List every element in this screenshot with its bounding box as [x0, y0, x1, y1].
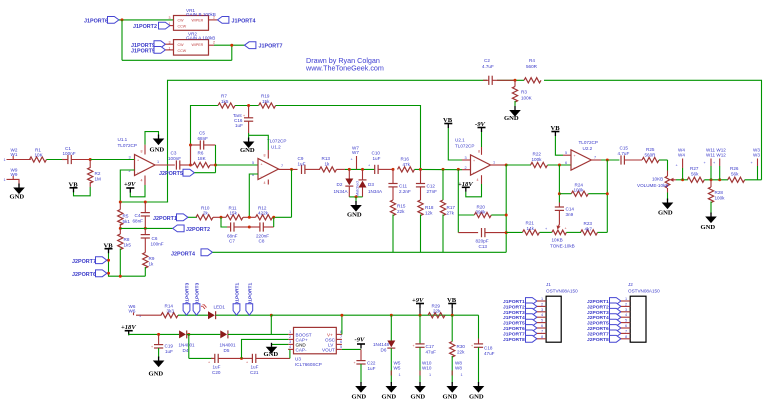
svg-text:+: +	[208, 361, 210, 365]
junction C3/R6/C5 left	[189, 164, 192, 167]
svg-text:J2PORT6: J2PORT6	[72, 272, 96, 278]
svg-text:U2.2: U2.2	[583, 146, 593, 151]
wiper arrow into TONE pot	[558, 220, 559, 227]
connector J1 body	[546, 296, 561, 342]
svg-text:6: 6	[340, 340, 342, 344]
ground R30	[446, 382, 458, 393]
wire U1.2 pin8 to GND	[267, 150, 269, 159]
capacitor C16 tantalum	[248, 106, 250, 118]
resistor R11	[226, 215, 243, 220]
pennant J1PORT2	[159, 22, 170, 29]
svg-text:OSTVN08A150: OSTVN08A150	[628, 288, 660, 293]
junction +9V rail tap	[270, 314, 273, 317]
svg-text:C14: C14	[566, 207, 575, 212]
capacitor C12	[420, 169, 422, 183]
junction R17 tap	[442, 168, 445, 171]
wire input	[7, 159, 31, 161]
wire TONE right to rail	[566, 231, 571, 233]
svg-text:2.2nF: 2.2nF	[399, 189, 411, 194]
svg-text:J1PORT7: J1PORT7	[259, 44, 283, 50]
resistor R1	[30, 157, 47, 162]
svg-text:8: 8	[541, 335, 543, 339]
svg-text:WIPER: WIPER	[192, 19, 204, 23]
svg-text:R9: R9	[149, 256, 155, 261]
svg-text:-9V: -9V	[355, 337, 365, 344]
diode D3 1N34A	[362, 169, 364, 179]
svg-text:1k: 1k	[149, 262, 155, 267]
svg-text:GND: GND	[10, 194, 25, 201]
wire CAP- loop	[288, 349, 290, 358]
svg-text:4: 4	[264, 181, 266, 185]
resistor R21	[522, 230, 539, 235]
svg-text:2k: 2k	[203, 211, 209, 216]
capacitor C18	[478, 315, 480, 338]
svg-text:J2PORT1: J2PORT1	[153, 216, 177, 222]
ground D6	[386, 382, 398, 393]
ground C22	[355, 382, 367, 393]
svg-text:R24: R24	[575, 182, 584, 187]
svg-text:1M: 1M	[95, 176, 102, 181]
svg-text:560R: 560R	[645, 152, 657, 157]
resistor R16	[398, 167, 415, 172]
svg-text:U1.1: U1.1	[118, 137, 128, 142]
svg-text:W10: W10	[422, 366, 432, 371]
pennant J1PORT3 (b)	[193, 304, 200, 315]
svg-text:R23: R23	[584, 221, 593, 226]
svg-text:+: +	[354, 361, 356, 365]
svg-text:J2PORT6: J2PORT6	[587, 326, 609, 332]
svg-text:D3: D3	[368, 182, 374, 187]
svg-text:5: 5	[625, 319, 627, 323]
wire VB to pin5	[555, 136, 563, 155]
svg-text:+: +	[471, 344, 473, 348]
svg-text:+: +	[261, 163, 263, 167]
svg-text:3: 3	[289, 340, 291, 344]
wire J2PORT2 row	[120, 227, 172, 229]
svg-text:4: 4	[141, 179, 143, 183]
ground VOLUME	[662, 199, 674, 210]
svg-text:1: 1	[493, 161, 495, 165]
wire U1.1 pin8 to GND loop	[144, 145, 146, 155]
wire LED to ports	[216, 314, 272, 316]
svg-text:1uF: 1uF	[165, 349, 173, 354]
svg-text:1uF: 1uF	[373, 156, 381, 161]
svg-text:ICL7660SCP: ICL7660SCP	[295, 362, 322, 367]
svg-text:68nF: 68nF	[133, 218, 144, 223]
wire R1 to C1	[47, 159, 67, 161]
svg-text:1k5: 1k5	[221, 99, 229, 104]
svg-text:GND: GND	[347, 212, 362, 219]
svg-text:VB: VB	[443, 117, 453, 124]
wire R6 to U1.2 pin5	[216, 164, 259, 166]
wire R2 to VB	[74, 187, 91, 196]
resistor R10	[196, 215, 213, 220]
wire W9 to gnd	[7, 179, 20, 186]
svg-text:3n9: 3n9	[566, 212, 574, 217]
svg-text:U1.2: U1.2	[271, 145, 281, 150]
svg-text:LED1: LED1	[214, 305, 226, 310]
svg-text:D6: D6	[381, 347, 387, 352]
svg-text:10KB: 10KB	[652, 177, 663, 182]
svg-text:8: 8	[141, 150, 143, 154]
junction D3	[361, 168, 364, 171]
diode D4 1N4001	[179, 330, 187, 338]
power -9V for U2.1	[478, 128, 486, 133]
svg-text:C21: C21	[250, 370, 259, 375]
pennant J2PORT4	[201, 249, 212, 256]
svg-text:J2PORT7: J2PORT7	[72, 259, 96, 265]
svg-text:1uF: 1uF	[251, 364, 259, 369]
diode D5 1N4001	[220, 330, 228, 338]
svg-text:100k: 100k	[574, 188, 585, 193]
relay VR2 box	[174, 40, 209, 56]
svg-text:J1PORT2: J1PORT2	[503, 304, 525, 310]
LED1	[208, 311, 216, 319]
svg-text:+: +	[246, 361, 248, 365]
svg-text:W4: W4	[678, 153, 685, 158]
svg-text:22k: 22k	[457, 349, 465, 354]
pennant J1PORT7	[245, 42, 256, 49]
svg-text:GAIN A 100kB: GAIN A 100kB	[186, 35, 215, 40]
svg-text:C15: C15	[620, 146, 629, 151]
power VB for U2.2	[551, 132, 559, 137]
capacitor C14	[558, 203, 560, 207]
svg-text:GND: GND	[149, 371, 164, 378]
svg-text:R10: R10	[201, 205, 210, 210]
J1 pin rows	[503, 297, 546, 343]
svg-text:J2PORT1: J2PORT1	[587, 299, 609, 305]
svg-text:4.7uF: 4.7uF	[482, 64, 494, 69]
svg-text:3: 3	[625, 308, 627, 312]
wire wiper out row	[676, 179, 688, 181]
svg-text:W3: W3	[753, 153, 760, 158]
pennant J1PORT5	[154, 47, 165, 54]
wire inner loop	[191, 106, 421, 170]
svg-text:TL072CP: TL072CP	[455, 143, 474, 148]
junction W4 tap	[681, 178, 684, 181]
ground under C16	[243, 138, 255, 149]
svg-text:J2PORT4: J2PORT4	[171, 251, 195, 257]
svg-text:TL072CP: TL072CP	[579, 140, 598, 145]
svg-text:C3: C3	[171, 151, 177, 156]
svg-text:R28: R28	[715, 190, 724, 195]
svg-text:8: 8	[625, 335, 627, 339]
ground C19	[153, 357, 165, 368]
svg-text:560R: 560R	[526, 64, 538, 69]
svg-text:15k: 15k	[230, 211, 238, 216]
wire U2.2 out	[591, 159, 601, 161]
ground C17	[414, 382, 426, 393]
capacitor C20	[215, 354, 218, 363]
svg-text:+9V: +9V	[124, 181, 136, 188]
wire U1.2 pin6 loop	[249, 174, 258, 217]
svg-text:100nF: 100nF	[63, 151, 76, 156]
svg-text:15k: 15k	[262, 99, 270, 104]
wire tone feedback rail	[606, 160, 608, 232]
svg-text:C10: C10	[372, 151, 381, 156]
svg-text:W6: W6	[129, 308, 136, 313]
svg-text:GND: GND	[504, 115, 519, 122]
junction VR2 out	[230, 44, 233, 47]
svg-text:W11 W12: W11 W12	[706, 153, 726, 158]
svg-text:W5: W5	[394, 366, 401, 371]
wire pot bottom	[667, 188, 669, 193]
svg-text:J1PORT4: J1PORT4	[232, 18, 256, 24]
svg-text:820pF: 820pF	[476, 238, 489, 243]
svg-text:CCW: CCW	[178, 49, 187, 53]
svg-text:+: +	[137, 159, 139, 163]
svg-text:R3: R3	[521, 90, 527, 95]
resistor R24	[559, 193, 571, 195]
svg-text:1uF: 1uF	[368, 366, 376, 371]
wire J1PORT2 to VR1	[170, 25, 174, 27]
svg-text:C19: C19	[165, 343, 174, 348]
svg-text:1: 1	[399, 373, 401, 377]
svg-text:47k: 47k	[403, 162, 411, 167]
junction R5/R8/J2PORT2	[119, 227, 122, 230]
svg-text:1k5: 1k5	[124, 242, 132, 247]
svg-text:GND: GND	[240, 147, 255, 154]
svg-text:-9V: -9V	[475, 121, 485, 128]
power +9V	[126, 188, 134, 193]
wire loop left vertical	[121, 20, 123, 60]
wire C20 riser	[188, 334, 190, 358]
junction D4/C20	[187, 333, 190, 336]
pennant J1PORT3 (a)	[183, 304, 190, 315]
svg-text:GND: GND	[352, 393, 367, 399]
svg-text:R6: R6	[198, 151, 204, 156]
resistor R23	[581, 230, 598, 235]
svg-text:www.TheToneGeek.com: www.TheToneGeek.com	[305, 63, 384, 72]
svg-text:2: 2	[289, 335, 291, 339]
junction U2.2 out	[606, 159, 609, 162]
junction J2PORT6 tap	[107, 272, 110, 275]
svg-text:R11: R11	[229, 205, 238, 210]
svg-text:10K: 10K	[35, 153, 44, 158]
svg-text:1: 1	[4, 178, 6, 182]
svg-text:3: 3	[169, 41, 171, 45]
svg-text:J1PORT3: J1PORT3	[185, 282, 191, 304]
junction C19 tap	[157, 333, 160, 336]
svg-text:1N4001: 1N4001	[220, 342, 237, 347]
svg-text:J1PORT3: J1PORT3	[195, 282, 201, 304]
junction D6 tap	[390, 314, 393, 317]
wire C16 to gnd with U1.2 pin8 loop	[248, 133, 250, 139]
svg-text:R4: R4	[529, 58, 535, 63]
resistor R29	[428, 313, 445, 318]
svg-text:5: 5	[340, 345, 342, 349]
power -9V supply	[357, 344, 365, 349]
svg-text:1: 1	[169, 22, 171, 26]
wire R12 right to feedback	[273, 216, 292, 218]
svg-text:C9: C9	[298, 156, 304, 161]
wire clipping row	[345, 168, 374, 170]
svg-text:2: 2	[213, 41, 215, 45]
svg-text:4: 4	[625, 313, 627, 317]
svg-text:C22: C22	[367, 361, 376, 366]
wire R14 to LED	[178, 314, 208, 316]
pennant J2PORT1	[177, 214, 188, 221]
svg-text:100nF: 100nF	[151, 241, 164, 246]
capacitor C19	[158, 334, 160, 344]
svg-text:3k3: 3k3	[167, 308, 175, 313]
wire CAP+ loop	[242, 339, 289, 358]
connector J2 body	[630, 296, 646, 342]
capacitor C8	[260, 222, 263, 231]
wire +18V to pin4	[466, 184, 482, 197]
stub U1.2 pin4	[267, 180, 269, 185]
resistor R22	[531, 162, 548, 167]
potentiometer TONE-10kB	[552, 230, 567, 235]
svg-text:1: 1	[4, 158, 6, 162]
wire VR1 out	[209, 19, 218, 21]
svg-text:6: 6	[625, 324, 627, 328]
capacitor C6	[144, 228, 146, 234]
svg-text:22k: 22k	[433, 309, 441, 314]
ground clipping	[350, 201, 362, 212]
svg-text:J1PORT4: J1PORT4	[503, 315, 525, 321]
wire J1PORT6 to VR1 pin	[119, 19, 174, 21]
svg-text:VB: VB	[551, 125, 561, 132]
capacitor C15	[621, 155, 624, 164]
svg-text:Matched: Matched	[356, 181, 360, 196]
svg-text:7: 7	[340, 335, 342, 339]
resistor R26	[728, 177, 745, 182]
wire J2PORT5 to C5 rail	[195, 172, 216, 174]
svg-text:TONE-10kB: TONE-10kB	[550, 243, 575, 248]
svg-text:C4: C4	[135, 213, 141, 218]
svg-text:1: 1	[157, 160, 159, 164]
svg-text:1: 1	[625, 297, 627, 301]
wire U2.1 output	[491, 164, 507, 166]
svg-text:GND: GND	[658, 210, 673, 217]
junction R28 tap	[710, 178, 713, 181]
svg-text:C18: C18	[484, 345, 493, 350]
power VB for U2.1	[444, 124, 452, 129]
svg-text:J1PORT3: J1PORT3	[503, 310, 525, 316]
wire U1.1 output	[155, 164, 175, 166]
svg-text:C13: C13	[479, 244, 488, 249]
resistor R8	[119, 228, 121, 234]
svg-text:27nF: 27nF	[427, 189, 438, 194]
svg-text:12k: 12k	[425, 211, 433, 216]
resistor R20	[457, 169, 459, 232]
wire loop bottom horizontal	[122, 59, 232, 61]
svg-text:J1PORT1: J1PORT1	[235, 282, 241, 304]
svg-text:R13: R13	[322, 156, 331, 161]
svg-text:56k: 56k	[731, 171, 739, 176]
svg-text:R19: R19	[261, 94, 270, 99]
junction R20 feedback tap	[457, 168, 460, 171]
svg-text:R16: R16	[401, 157, 410, 162]
svg-text:220nF: 220nF	[256, 233, 269, 238]
resistor R3	[514, 80, 516, 86]
capacitor C22	[360, 349, 362, 360]
svg-text:6: 6	[541, 324, 543, 328]
svg-text:R8: R8	[124, 237, 130, 242]
svg-text:W7: W7	[352, 150, 359, 155]
wire D4 to D5	[187, 333, 221, 335]
wire J1PORT5 to VR2	[166, 49, 174, 51]
IC U3 ICL7660SCP box	[294, 327, 337, 353]
svg-text:D5: D5	[224, 348, 230, 353]
diode D2 1N34A	[348, 169, 350, 178]
svg-text:14k: 14k	[527, 226, 535, 231]
svg-text:47uF: 47uF	[484, 351, 495, 356]
svg-text:+18V: +18V	[458, 181, 473, 188]
op-amp U2.1	[471, 155, 491, 175]
svg-text:R21: R21	[526, 221, 535, 226]
svg-text:1: 1	[541, 297, 543, 301]
relay VR1 box	[174, 16, 209, 31]
wire TONE left to R21	[539, 231, 551, 233]
svg-text:+: +	[151, 345, 153, 349]
pennant J2PORT2	[173, 225, 184, 232]
svg-text:5k1: 5k1	[123, 219, 131, 224]
svg-text:R5: R5	[123, 214, 129, 219]
wire VB to pin3	[448, 128, 462, 160]
pennant J2PORT7	[96, 257, 107, 264]
wire +18V to D4	[129, 333, 179, 336]
svg-text:390k: 390k	[476, 210, 487, 215]
svg-text:U2.1: U2.1	[455, 138, 465, 143]
svg-text:8: 8	[478, 150, 480, 154]
op-amp U2.2	[571, 150, 591, 170]
svg-text:4.7uF: 4.7uF	[618, 151, 630, 156]
svg-text:D4: D4	[183, 348, 189, 353]
svg-text:100K: 100K	[521, 95, 533, 100]
capacitor C9	[302, 165, 305, 174]
svg-text:GND: GND	[264, 351, 279, 358]
svg-text:2: 2	[541, 302, 543, 306]
junction R10/R11/C7	[220, 216, 223, 219]
pennant J2PORT5	[183, 169, 194, 176]
svg-text:18K: 18K	[198, 156, 207, 161]
junction W12 tap	[718, 178, 721, 181]
capacitor C2	[489, 76, 492, 85]
svg-text:J2PORT3: J2PORT3	[587, 310, 609, 316]
svg-text:GND: GND	[443, 393, 458, 399]
capacitor C1	[68, 155, 71, 164]
svg-text:J1PORT1: J1PORT1	[248, 282, 254, 304]
potentiometer VOLUME-10kB	[665, 176, 670, 188]
capacitor C11	[392, 169, 394, 183]
pennant J1PORT9	[154, 41, 165, 48]
wire J1PORT9 to VR2	[166, 43, 174, 45]
svg-text:4k7: 4k7	[585, 226, 593, 231]
wire -9V to pin8	[481, 132, 483, 147]
svg-text:1: 1	[139, 314, 141, 318]
svg-text:3: 3	[169, 16, 171, 20]
svg-text:R7: R7	[221, 94, 227, 99]
svg-text:100nF: 100nF	[168, 156, 181, 161]
svg-text:CAP-: CAP-	[296, 347, 307, 352]
svg-text:WIPER: WIPER	[192, 43, 204, 47]
capacitor C17	[419, 315, 421, 343]
svg-text:6: 6	[565, 161, 567, 165]
junction C2/R3/R4	[514, 79, 517, 82]
wire out to R22	[506, 164, 531, 166]
svg-text:J2PORT8: J2PORT8	[587, 337, 609, 343]
diode D6 1N4148	[390, 315, 392, 340]
svg-text:1: 1	[169, 47, 171, 51]
svg-text:C7: C7	[229, 239, 235, 244]
svg-text:J2: J2	[628, 282, 633, 287]
svg-text:8: 8	[264, 154, 266, 158]
resistor R19	[259, 103, 276, 108]
svg-text:R30: R30	[457, 344, 466, 349]
ground C18	[473, 382, 485, 393]
